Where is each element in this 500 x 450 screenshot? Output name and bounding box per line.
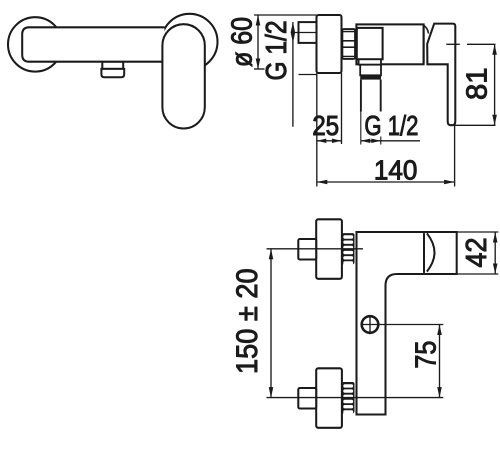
140 right extension line [454, 125, 456, 186]
svg-text:ø 60: ø 60 [227, 17, 259, 67]
81 bottom extension line [450, 124, 496, 126]
svg-text:140: 140 [374, 155, 418, 186]
bottom union centerline + 75 bottom extension [267, 397, 444, 399]
bottom union thread teeth [342, 382, 355, 414]
bottom union hex [298, 388, 316, 409]
svg-text:G 1/2: G 1/2 [364, 110, 418, 141]
outlet left extension line [360, 112, 362, 145]
handle capsule [162, 24, 204, 128]
spout upper step [102, 62, 123, 69]
left wall flange circle [8, 17, 62, 71]
bottom union escutcheon [316, 368, 342, 428]
shower outlet circle [362, 316, 379, 333]
25 right extension line [341, 73, 343, 144]
outlet pipe left edge [360, 80, 362, 112]
top union centerline [267, 248, 364, 250]
outlet step 2 [360, 65, 381, 76]
150 +- 20 dimension line [270, 249, 272, 398]
outlet thread band [360, 75, 381, 79]
42 top extension line [457, 231, 499, 233]
G 1/2 outlet dimension line [361, 140, 420, 142]
svg-text:25: 25 [312, 110, 339, 141]
svg-text:81: 81 [462, 68, 494, 101]
right wall flange circle [162, 14, 218, 70]
body horizontal bar [22, 27, 164, 61]
outlet crosshair horizontal / 75 top extension [361, 324, 443, 326]
svg-text:42: 42 [461, 238, 493, 268]
cartridge dome edge line [423, 233, 425, 273]
outlet pipe right edge [380, 80, 382, 112]
inlet centerline [295, 32, 321, 34]
svg-text:150 ± 20: 150 ± 20 [231, 268, 264, 374]
wall escutcheon rect [317, 15, 342, 73]
G 1/2 inlet dimension line [292, 22, 294, 127]
union bottom edge line [299, 74, 318, 76]
arm tube [356, 24, 423, 64]
outlet step 1 [359, 59, 381, 64]
42 bottom extension line [457, 273, 499, 275]
top union escutcheon [316, 219, 342, 278]
25 dimension line [317, 140, 342, 142]
75 dimension line [439, 325, 441, 398]
dia 60 bottom tick [254, 68, 265, 70]
spout lower step [101, 69, 124, 77]
handle body [427, 24, 455, 126]
81 dimension line [494, 44, 496, 125]
top union thread teeth [342, 233, 355, 265]
140 dimension line [317, 181, 455, 183]
cartridge dome arc [427, 233, 435, 271]
outlet right extension stub [380, 137, 382, 145]
handle pivot wedge curve [424, 26, 429, 34]
cartridge body [357, 28, 383, 59]
outlet crosshair vertical [369, 315, 371, 334]
svg-text:75: 75 [411, 341, 443, 369]
svg-text:G 1/2: G 1/2 [261, 21, 293, 81]
42 dimension line [494, 232, 496, 274]
81 top extension line [446, 43, 460, 45]
union nut [342, 29, 355, 59]
G1/2 inlet thread stub [299, 22, 317, 43]
arm end edge [423, 24, 425, 63]
25 left extension line [316, 73, 318, 187]
dia 60 top extension line [254, 14, 317, 16]
top union hex [298, 239, 316, 260]
dia 60 dimension line [257, 15, 259, 69]
body L-shape [357, 232, 457, 415]
